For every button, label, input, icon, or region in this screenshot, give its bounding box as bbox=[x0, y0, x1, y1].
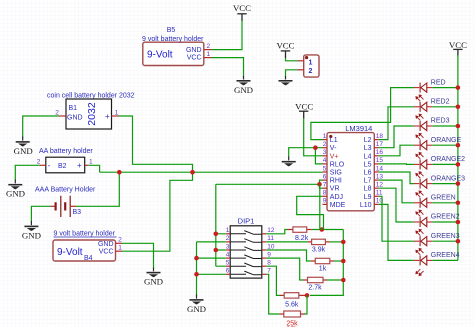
wire DIP pin7 to R 25k bbox=[266, 274, 279, 314]
wire U1 L9 to LED GREEN3 bbox=[379, 196, 414, 241]
U1 pin 4 bbox=[323, 157, 328, 164]
LED ORANGE2 bbox=[414, 153, 465, 170]
B3 right stub bbox=[71, 205, 76, 207]
wire 2.7k to chain bbox=[327, 279, 343, 281]
svg-text:GREEN3: GREEN3 bbox=[431, 233, 460, 240]
svg-text:8: 8 bbox=[323, 190, 327, 197]
svg-text:ORANGE3: ORANGE3 bbox=[431, 175, 465, 182]
svg-text:L5: L5 bbox=[364, 161, 372, 168]
VCC symbol U1 bbox=[295, 102, 313, 119]
DIP1 switch lever 3 bbox=[230, 247, 262, 251]
svg-text:L7: L7 bbox=[364, 178, 372, 185]
wire GREEN to rail bbox=[432, 202, 458, 204]
JP1 pin 2 stub bbox=[298, 69, 304, 71]
wire VCC to U1 V+ bbox=[304, 117, 323, 156]
DIP1 switch lever 4 bbox=[230, 255, 262, 259]
wire U1 L1 to LED RED bbox=[311, 88, 414, 140]
wire battery net to SIG bbox=[100, 171, 323, 173]
svg-text:GREEN2: GREEN2 bbox=[431, 214, 460, 221]
svg-text:11: 11 bbox=[267, 235, 274, 242]
wire B2 pin2 to GND bbox=[15, 165, 40, 180]
B5 pin 2 bbox=[204, 43, 212, 50]
U1 pin 8 bbox=[323, 190, 328, 197]
svg-text:VCC: VCC bbox=[449, 40, 467, 50]
svg-text:6: 6 bbox=[323, 173, 327, 180]
DIP1 pin 8 bbox=[262, 260, 272, 267]
DIP1 switch lever 2 bbox=[230, 239, 262, 243]
U1 pin 1 bbox=[323, 133, 328, 140]
B4 pin 2 bbox=[116, 237, 123, 244]
wire resistor chain vertical bbox=[310, 230, 343, 296]
junction chain 3.9k bbox=[341, 240, 346, 245]
B5 pin 1 bbox=[204, 51, 212, 58]
wire RED2 to rail bbox=[432, 106, 458, 108]
svg-text:1: 1 bbox=[89, 159, 93, 166]
svg-text:+: + bbox=[77, 161, 82, 170]
LED GREEN4 bbox=[414, 249, 460, 276]
U1 pin 16 bbox=[374, 149, 383, 156]
wire RED3 to rail bbox=[432, 125, 458, 127]
ground U1 V- bbox=[282, 157, 296, 167]
svg-text:12: 12 bbox=[376, 182, 384, 189]
junction rail RED bbox=[456, 85, 461, 90]
svg-text:AA battery holder: AA battery holder bbox=[39, 148, 93, 155]
svg-text:RLO: RLO bbox=[330, 161, 345, 168]
svg-text:1: 1 bbox=[309, 60, 313, 67]
junction 5.6k right bbox=[305, 293, 310, 298]
svg-text:GND: GND bbox=[14, 146, 33, 156]
junction rail GREEN bbox=[456, 201, 461, 206]
junction DIP pin4 bbox=[194, 256, 199, 261]
svg-text:V+: V+ bbox=[330, 153, 339, 160]
svg-text:GND: GND bbox=[6, 189, 25, 199]
DIP1 pin 9 bbox=[262, 251, 272, 258]
wire DIP pin12 to R 8.2k bbox=[266, 230, 287, 234]
svg-text:13: 13 bbox=[376, 173, 384, 180]
DIP1 pin 11 bbox=[262, 235, 275, 242]
DIP1 pin 1 bbox=[226, 227, 231, 234]
svg-text:1: 1 bbox=[323, 133, 327, 140]
svg-text:9-Volt: 9-Volt bbox=[147, 50, 173, 61]
battery holder B4 bbox=[53, 230, 117, 262]
junction rail RED3 bbox=[456, 124, 461, 129]
svg-text:GND: GND bbox=[98, 241, 114, 248]
resistor 2.7k bbox=[304, 277, 328, 291]
svg-text:7: 7 bbox=[267, 268, 271, 275]
U1 pin 6 bbox=[323, 173, 328, 180]
svg-text:18: 18 bbox=[376, 133, 384, 140]
ground B3 bbox=[22, 221, 41, 240]
ground B4 bbox=[144, 268, 163, 287]
resistor 25k bbox=[280, 311, 305, 327]
junction V- RLO bbox=[313, 145, 318, 150]
junction rail GREEN3 bbox=[456, 239, 461, 244]
DIP1 pin 10 bbox=[262, 243, 275, 250]
wire B1 pin2 to GND bbox=[23, 116, 59, 138]
svg-text:SIG: SIG bbox=[330, 170, 342, 177]
svg-text:RHI: RHI bbox=[330, 178, 342, 185]
svg-text:VCC: VCC bbox=[233, 3, 251, 13]
DIP1 pin 12 bbox=[262, 227, 275, 234]
U1 pin 3 bbox=[323, 149, 328, 156]
U1 pin 9 bbox=[323, 198, 328, 205]
resistor 1k bbox=[311, 258, 334, 272]
wire DIP pin8 to R 5.6k bbox=[266, 266, 280, 295]
U1 pin 7 bbox=[323, 182, 328, 189]
svg-text:ORANGE2: ORANGE2 bbox=[431, 156, 465, 163]
svg-text:1: 1 bbox=[118, 245, 122, 252]
svg-text:14: 14 bbox=[376, 165, 384, 172]
wire ORANGE2 to rail bbox=[432, 163, 458, 165]
svg-text:4: 4 bbox=[323, 157, 327, 164]
svg-text:10: 10 bbox=[267, 243, 275, 250]
wire V- to RLO bbox=[315, 148, 322, 164]
battery B3 AAA bbox=[35, 186, 96, 217]
wire DIP even pins to GND bbox=[197, 242, 226, 296]
svg-text:RED: RED bbox=[431, 79, 446, 86]
svg-text:5: 5 bbox=[226, 260, 230, 267]
svg-text:2: 2 bbox=[226, 235, 230, 242]
svg-text:ADJ: ADJ bbox=[330, 194, 343, 201]
wire JP1 pin1 to VCC bbox=[286, 57, 298, 61]
svg-text:GND: GND bbox=[186, 47, 202, 54]
U1 pin 13 bbox=[374, 173, 383, 180]
junction RHI VR bbox=[317, 182, 322, 187]
wire 8.2k to chain bbox=[312, 229, 344, 231]
ground B1 bbox=[14, 137, 33, 156]
JP1 pin 1 stub bbox=[298, 60, 304, 62]
ground B5 pin1 bbox=[234, 76, 253, 95]
wire B5 pin1 to GND bbox=[212, 58, 244, 77]
junction rail ORANGE2 bbox=[456, 162, 461, 167]
B3 left stub bbox=[51, 205, 55, 207]
wire ORANGE to rail bbox=[432, 144, 458, 146]
svg-text:17: 17 bbox=[376, 141, 384, 148]
DIP switch DIP1 bbox=[230, 216, 262, 278]
svg-text:B4: B4 bbox=[84, 255, 93, 262]
wire U1 L2 to LED RED2 bbox=[379, 107, 414, 140]
svg-text:GND: GND bbox=[67, 115, 83, 122]
svg-text:L9: L9 bbox=[364, 194, 372, 201]
svg-text:2.7k: 2.7k bbox=[308, 285, 322, 292]
LED RED2 bbox=[414, 95, 450, 112]
svg-text:-: - bbox=[48, 161, 51, 170]
svg-text:L8: L8 bbox=[364, 186, 372, 193]
svg-text:VCC: VCC bbox=[187, 54, 202, 61]
junction rail GREEN2 bbox=[456, 220, 461, 225]
B1 pin 1 stub bbox=[112, 109, 119, 116]
U1 pin 10 bbox=[374, 198, 383, 205]
svg-text:3.9k: 3.9k bbox=[312, 247, 326, 254]
svg-text:GND: GND bbox=[22, 230, 41, 240]
svg-text:9 volt battery holder: 9 volt battery holder bbox=[54, 230, 116, 237]
svg-text:L6: L6 bbox=[364, 170, 372, 177]
battery holder B1 coin cell 2032 bbox=[47, 93, 135, 130]
svg-text:12: 12 bbox=[267, 227, 275, 234]
junction DIP pin3 bbox=[214, 248, 219, 253]
B1 pin 2 stub bbox=[55, 109, 66, 116]
svg-text:RED2: RED2 bbox=[431, 99, 450, 106]
wire ORANGE3 to rail bbox=[432, 183, 458, 185]
svg-text:11: 11 bbox=[376, 190, 383, 197]
svg-text:7: 7 bbox=[323, 182, 327, 189]
wire U1 L5 to LED ORANGE2 bbox=[379, 163, 414, 166]
svg-text:15: 15 bbox=[376, 157, 384, 164]
wire RHI VR bracket bbox=[320, 180, 323, 188]
svg-text:4: 4 bbox=[226, 251, 230, 258]
svg-text:AAA Battery Holder: AAA Battery Holder bbox=[35, 186, 96, 193]
battery holder B5 bbox=[142, 27, 204, 66]
svg-text:+: + bbox=[105, 112, 110, 121]
svg-text:2: 2 bbox=[323, 141, 327, 148]
wire DIP pin11 to R 3.9k bbox=[266, 241, 308, 243]
wire 3.9k to chain bbox=[330, 241, 344, 243]
wire 1k to chain bbox=[334, 260, 343, 262]
resistor 8.2k bbox=[288, 227, 312, 242]
junction chain 2.7k bbox=[341, 278, 346, 283]
svg-text:9: 9 bbox=[267, 251, 271, 258]
DIP1 pin 4 bbox=[226, 251, 231, 258]
wire U1 L8 to LED GREEN2 bbox=[379, 188, 414, 222]
U1 pin 5 bbox=[323, 165, 328, 172]
svg-text:L3: L3 bbox=[364, 145, 372, 152]
wire RHI junction down to 8.2k bbox=[320, 184, 322, 229]
wire B4 pin1 to battery net bbox=[122, 172, 193, 251]
LED ORANGE3 bbox=[414, 172, 465, 189]
wire U1 V- to GND bbox=[289, 148, 323, 158]
svg-text:1: 1 bbox=[226, 227, 230, 234]
U1 pin 18 bbox=[374, 133, 383, 140]
svg-text:2: 2 bbox=[309, 68, 313, 75]
svg-text:GREEN4: GREEN4 bbox=[431, 252, 460, 259]
svg-text:16: 16 bbox=[376, 149, 384, 156]
wire B2 pin1 to battery net bbox=[88, 165, 99, 172]
wire U1 L10 to LED GREEN4 bbox=[379, 204, 414, 260]
svg-text:GND: GND bbox=[234, 85, 253, 95]
svg-text:B2: B2 bbox=[58, 163, 67, 170]
wire JP1 pin2 to GND bbox=[286, 70, 298, 77]
svg-text:RED3: RED3 bbox=[431, 118, 450, 125]
svg-text:1k: 1k bbox=[319, 266, 327, 273]
B4 pin 1 bbox=[116, 245, 123, 252]
wire 5.6k junction to 25k bbox=[304, 295, 307, 314]
svg-text:2: 2 bbox=[118, 237, 122, 244]
ground DIP1 bbox=[187, 295, 206, 314]
svg-text:1: 1 bbox=[115, 109, 119, 116]
U1 pin 17 bbox=[374, 141, 383, 148]
VCC symbol top center bbox=[233, 3, 251, 21]
wire B3 to GND bbox=[31, 206, 50, 222]
resistor 3.9k bbox=[308, 239, 330, 253]
junction battery net at B3 bbox=[117, 170, 122, 175]
wire B4 pin2 to GND bbox=[122, 243, 154, 268]
svg-text:3: 3 bbox=[226, 243, 230, 250]
svg-text:GND: GND bbox=[187, 304, 206, 314]
VCC symbol LED rail bbox=[449, 40, 467, 57]
DIP1 switch lever 5 bbox=[230, 263, 262, 267]
svg-text:VCC: VCC bbox=[295, 102, 313, 112]
junction rail RED2 bbox=[456, 105, 461, 110]
junction chain 1k bbox=[341, 259, 346, 264]
B2 pin 2 stub bbox=[37, 159, 46, 166]
wire RED to rail bbox=[432, 87, 458, 89]
svg-text:GREEN: GREEN bbox=[431, 195, 456, 202]
svg-text:B3: B3 bbox=[73, 209, 82, 216]
U1 pin 14 bbox=[374, 165, 383, 172]
wire B3 plus to battery net bbox=[76, 172, 119, 206]
svg-text:ORANGE: ORANGE bbox=[431, 137, 462, 144]
resistor 5.6k bbox=[280, 293, 307, 309]
wire U1 L3 to LED RED3 bbox=[379, 126, 414, 148]
svg-text:VR: VR bbox=[330, 186, 340, 193]
B2 pin 1 stub bbox=[85, 159, 93, 166]
svg-text:9 volt battery holder: 9 volt battery holder bbox=[142, 36, 204, 43]
svg-text:2: 2 bbox=[37, 159, 41, 166]
LED RED3 bbox=[414, 114, 450, 131]
svg-text:9: 9 bbox=[323, 198, 327, 205]
DIP1 pin 3 bbox=[226, 243, 231, 250]
ground B2 bbox=[6, 180, 25, 199]
U1 pin 11 bbox=[374, 190, 383, 197]
wire B1 pin1 to battery net bbox=[119, 116, 193, 172]
DIP1 pin 5 bbox=[226, 260, 231, 267]
wire DIP odd net to RHI bbox=[216, 183, 320, 185]
junction battery net main bbox=[190, 170, 195, 175]
svg-text:8: 8 bbox=[267, 260, 271, 267]
svg-text:5.6k: 5.6k bbox=[285, 302, 299, 309]
junction rail ORANGE3 bbox=[456, 181, 461, 186]
U1 pin 12 bbox=[374, 182, 383, 189]
U1 pin 15 bbox=[374, 157, 383, 164]
LED ORANGE bbox=[414, 133, 462, 150]
ground JP1 bbox=[279, 76, 293, 85]
svg-text:1: 1 bbox=[206, 51, 210, 58]
LED GREEN3 bbox=[414, 229, 460, 246]
wire GREEN2 to rail bbox=[432, 221, 458, 223]
svg-text:LM3914: LM3914 bbox=[345, 124, 372, 133]
svg-text:GND: GND bbox=[144, 277, 163, 287]
svg-text:B5: B5 bbox=[167, 27, 176, 34]
connector JP1 bbox=[304, 55, 319, 77]
svg-text:MDE: MDE bbox=[330, 202, 346, 209]
wire U1 L4 to LED ORANGE bbox=[379, 145, 414, 156]
VCC symbol JP1 bbox=[276, 40, 294, 58]
svg-text:DIP1: DIP1 bbox=[238, 216, 255, 225]
svg-text:VCC: VCC bbox=[99, 249, 114, 256]
svg-text:V-: V- bbox=[330, 145, 337, 152]
junction 8.2k right bbox=[320, 227, 325, 232]
wire DIP pin10 to R 1k bbox=[266, 250, 311, 261]
DIP1 pin 2 bbox=[226, 235, 231, 242]
svg-text:3: 3 bbox=[323, 149, 327, 156]
svg-text:2032: 2032 bbox=[86, 102, 98, 126]
junction DIP pin1 bbox=[214, 232, 219, 237]
DIP1 switch lever 6 bbox=[230, 271, 262, 275]
svg-text:L2: L2 bbox=[364, 137, 372, 144]
svg-text:6: 6 bbox=[226, 268, 230, 275]
battery holder B2 AA bbox=[39, 148, 93, 173]
svg-text:B1: B1 bbox=[69, 105, 78, 112]
wire U1 L6 to LED ORANGE3 bbox=[379, 172, 414, 184]
svg-text:2: 2 bbox=[206, 43, 210, 50]
svg-text:L10: L10 bbox=[360, 202, 372, 209]
wire U1 L7 to LED GREEN bbox=[379, 180, 414, 203]
wire B5 pin2 to VCC bbox=[212, 20, 243, 50]
DIP1 switch lever 1 bbox=[230, 231, 262, 235]
svg-text:9-Volt: 9-Volt bbox=[57, 247, 83, 258]
op-amp U1 LM3914 bbox=[327, 124, 374, 211]
wire GREEN4 to rail bbox=[432, 259, 458, 261]
DIP1 pin 6 bbox=[226, 268, 231, 275]
wire LED anode rail bbox=[457, 55, 459, 260]
DIP1 pin 7 bbox=[262, 268, 272, 275]
LED RED bbox=[414, 79, 446, 92]
junction DIP pin6 bbox=[194, 272, 199, 277]
svg-text:L4: L4 bbox=[364, 153, 372, 160]
wire U1 ADJ jog to 8.2k junction bbox=[297, 196, 324, 229]
LED GREEN bbox=[414, 191, 456, 208]
wire GREEN3 to rail bbox=[432, 240, 458, 242]
wire DIP pin9 to R 2.7k bbox=[266, 258, 303, 280]
svg-text:2: 2 bbox=[55, 109, 59, 116]
junction rail ORANGE bbox=[456, 143, 461, 148]
U1 pin 2 bbox=[323, 141, 328, 148]
wire DIP odd pins to RHI net bbox=[216, 184, 226, 266]
svg-text:L1: L1 bbox=[330, 137, 338, 144]
svg-text:8.2k: 8.2k bbox=[295, 235, 309, 242]
LED GREEN2 bbox=[414, 210, 460, 227]
svg-text:VCC: VCC bbox=[276, 40, 294, 50]
svg-text:5: 5 bbox=[323, 165, 327, 172]
